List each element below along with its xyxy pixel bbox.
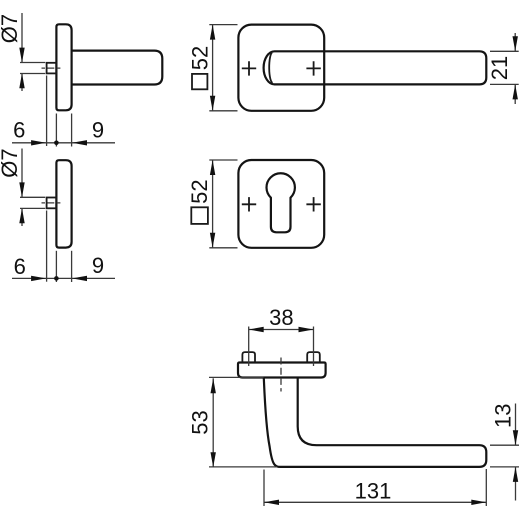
dia7 dimension line lower <box>21 209 23 226</box>
53 extension line top <box>209 376 264 378</box>
rosette plate edge <box>238 363 326 378</box>
fixing lug <box>47 63 57 74</box>
svg-text:52: 52 <box>188 46 213 70</box>
label square glyph <box>192 74 207 89</box>
dia7 dimension line upper <box>21 13 23 62</box>
svg-text:9: 9 <box>92 253 104 278</box>
53 arrow down <box>211 452 216 467</box>
neck cylinder side profile <box>72 51 163 85</box>
dia7 dimension line lower <box>21 74 23 91</box>
dia7 arrow up <box>19 208 24 223</box>
53 arrow up <box>211 378 216 393</box>
53 extension line bottom <box>209 466 277 468</box>
extension line lug left <box>46 211 48 282</box>
dia7 arrow down <box>19 182 24 197</box>
extension line rosette front <box>55 114 57 147</box>
13 arrow down <box>513 430 518 445</box>
extension line top <box>209 159 237 161</box>
38 extension line left <box>248 327 250 367</box>
extension line rosette back <box>71 251 73 282</box>
sq52 dimension line <box>212 25 214 111</box>
euro cylinder hole <box>267 173 295 232</box>
6-9 dimension line <box>12 277 115 279</box>
dia7 extension line top <box>20 196 45 198</box>
38 dimension line <box>249 329 314 331</box>
extension line bottom <box>209 110 237 112</box>
svg-text:Ø7: Ø7 <box>0 14 22 43</box>
lug centerline <box>42 202 61 204</box>
label square glyph <box>191 207 208 224</box>
junction dot <box>54 276 59 281</box>
dia7 dimension line upper <box>21 149 23 197</box>
arrow up top <box>210 25 215 40</box>
arrow left at rosette back <box>72 140 87 145</box>
svg-text:Ø7: Ø7 <box>0 148 22 177</box>
svg-text:9: 9 <box>92 117 104 142</box>
svg-text:6: 6 <box>14 254 26 279</box>
svg-text:6: 6 <box>13 118 25 143</box>
lug centerline <box>42 67 61 69</box>
svg-text:53: 53 <box>188 410 213 434</box>
38 extension line right <box>313 327 315 367</box>
13 arrow up <box>513 467 518 482</box>
131 extension line left <box>263 470 265 507</box>
38 arrow left <box>249 327 264 332</box>
131 extension line right <box>485 469 487 506</box>
21 dimension extension bottom <box>490 83 519 85</box>
svg-text:13: 13 <box>491 403 516 427</box>
arrow left at rosette back <box>72 276 87 281</box>
rosette body side profile <box>56 24 71 110</box>
fixing lug <box>47 198 57 209</box>
21 dimension extension top <box>490 50 519 52</box>
svg-text:38: 38 <box>269 305 293 330</box>
21 arrow down <box>513 36 518 51</box>
13 dimension line lower <box>515 467 517 500</box>
21 dimension line lower <box>514 85 516 104</box>
dia7 extension line bottom <box>20 73 45 75</box>
screw post right <box>307 352 320 362</box>
svg-text:52: 52 <box>187 179 212 203</box>
dia7 arrow down <box>19 48 24 63</box>
screw post left <box>242 352 255 362</box>
13 dimension line upper <box>515 404 517 446</box>
lever grip bar <box>264 51 487 84</box>
6-9 dimension line <box>12 142 115 144</box>
square rosette <box>238 160 324 248</box>
dia7 extension line bottom <box>20 207 45 209</box>
neck transition arc <box>269 52 273 82</box>
53 dimension line <box>212 378 214 467</box>
svg-text:21: 21 <box>487 56 512 80</box>
dia7 extension line top <box>20 62 45 64</box>
131 dimension line <box>264 501 486 503</box>
131 arrow right <box>471 500 486 505</box>
screw mark left <box>242 61 256 75</box>
junction dot <box>54 141 59 146</box>
arrow down bottom <box>210 96 215 111</box>
square rosette <box>238 25 324 111</box>
screw mark right <box>306 197 320 211</box>
handle outline <box>264 378 487 467</box>
21 dimension line upper <box>514 33 516 51</box>
arrow up top <box>210 160 215 175</box>
dia7 arrow up <box>19 73 24 88</box>
extension line lug left <box>46 76 48 147</box>
extension line top <box>209 24 237 26</box>
screw mark left <box>242 197 256 211</box>
arrow down bottom <box>210 233 215 248</box>
svg-text:131: 131 <box>355 478 392 503</box>
21 arrow up <box>513 84 518 99</box>
38 arrow right <box>299 327 314 332</box>
extension line bottom <box>209 247 237 249</box>
sq52 dimension line <box>212 160 214 248</box>
13 extension line top <box>490 444 519 446</box>
rosette body side profile <box>56 160 71 247</box>
13 extension line bottom <box>490 466 519 468</box>
arrow right at lug left <box>31 140 46 145</box>
extension line rosette front <box>55 251 57 282</box>
arrow right at lug left <box>31 276 46 281</box>
spindle axis dashed <box>280 358 282 392</box>
screw mark right <box>306 61 320 75</box>
131 arrow left <box>264 500 279 505</box>
extension line rosette back <box>71 114 73 147</box>
